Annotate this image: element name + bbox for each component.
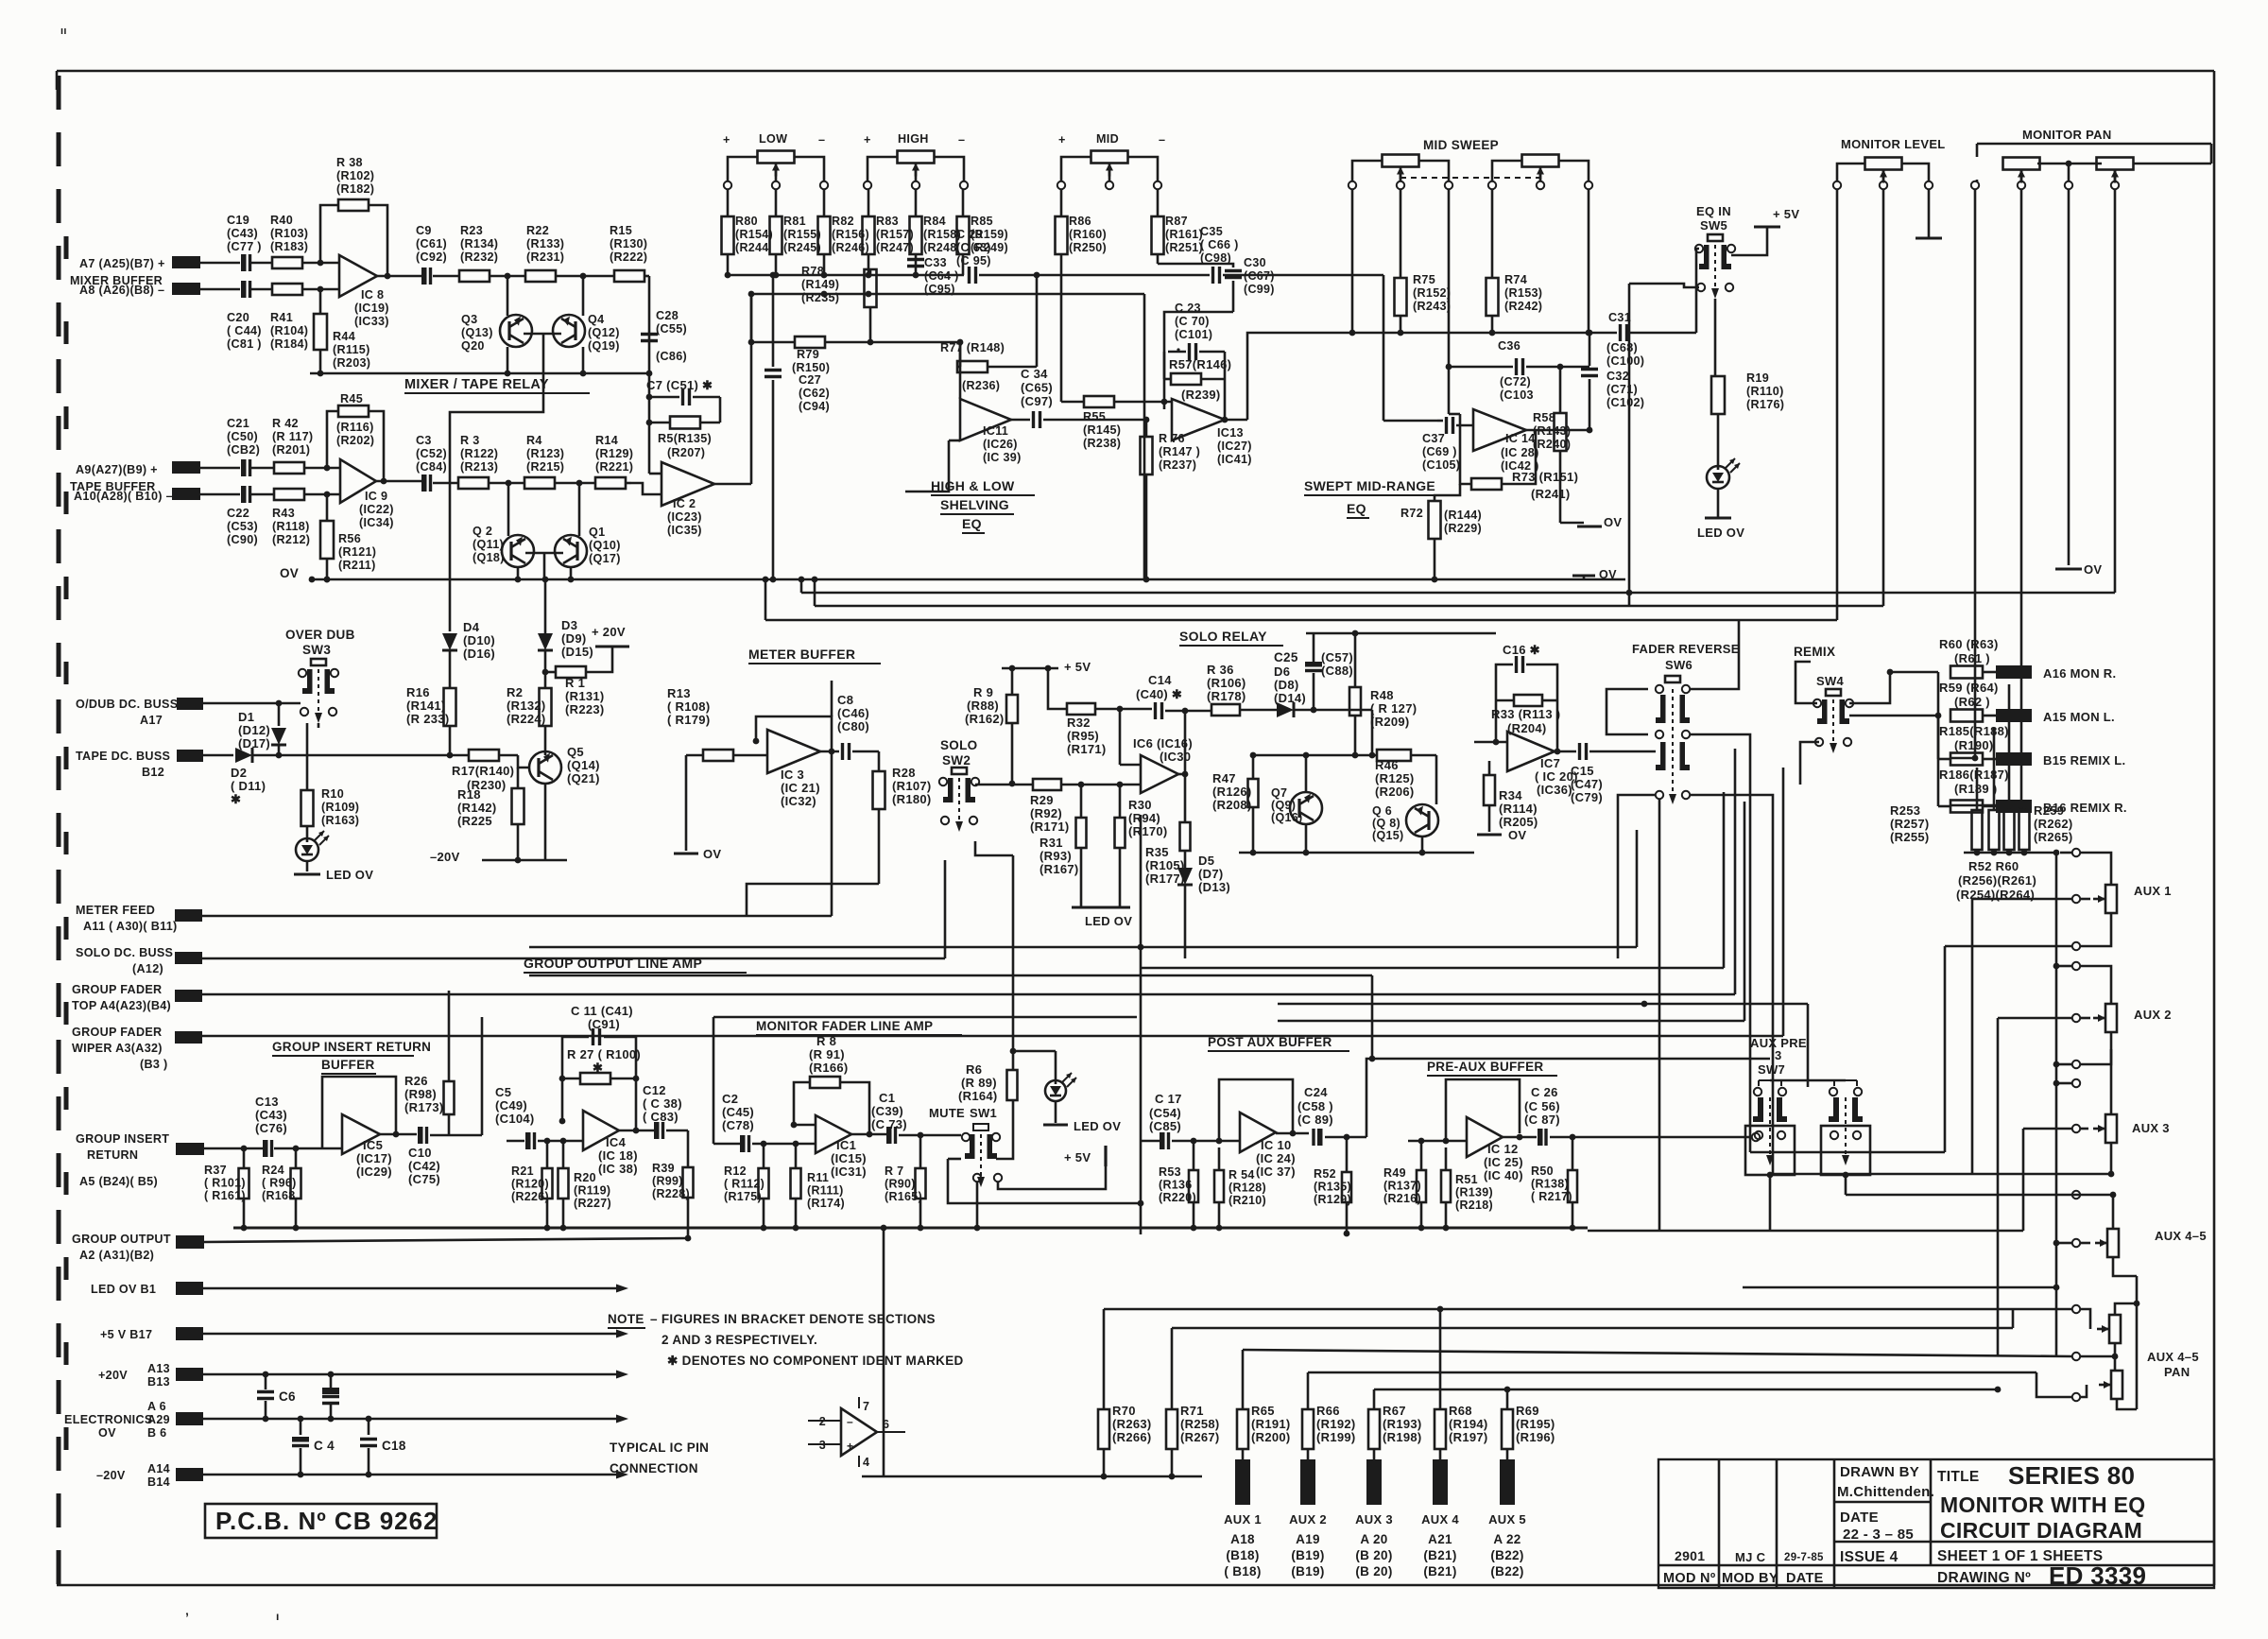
resistor R84 — [910, 189, 962, 275]
svg-text:Q 6: Q 6 — [1372, 804, 1392, 818]
svg-text:R69: R69 — [1516, 1404, 1539, 1418]
svg-text:(R191): (R191) — [1251, 1417, 1291, 1431]
svg-text:B12: B12 — [142, 766, 164, 779]
svg-text:R 42: R 42 — [272, 417, 299, 430]
wire — [2113, 1257, 2139, 1409]
resistor R24 — [262, 1148, 301, 1231]
svg-text:OV: OV — [1604, 515, 1622, 529]
svg-text:(C99): (C99) — [1244, 283, 1275, 296]
svg-text:(R178): (R178) — [1207, 689, 1246, 703]
svg-text:(B22): (B22) — [1490, 1564, 1523, 1579]
svg-text:+5 V B17: +5 V B17 — [100, 1328, 152, 1341]
LED D-EQ — [1707, 458, 1740, 489]
svg-text:(R197): (R197) — [1449, 1430, 1488, 1444]
svg-text:SWEPT MID-RANGE: SWEPT MID-RANGE — [1304, 478, 1435, 493]
svg-text:(R123): (R123) — [526, 447, 564, 460]
transistor Q2 — [472, 483, 534, 582]
resistor R33 — [1491, 695, 1560, 735]
capacitor C30 — [1164, 256, 1275, 352]
svg-text:R 27 ( R100): R 27 ( R100) — [567, 1047, 641, 1061]
svg-text:(R255): (R255) — [1890, 830, 1930, 844]
svg-text:(R135): (R135) — [1314, 1181, 1351, 1194]
svg-text:R50: R50 — [1531, 1165, 1554, 1178]
svg-text:R56: R56 — [338, 532, 361, 545]
wire — [1216, 1079, 1297, 1144]
wire — [1307, 1372, 1310, 1409]
svg-text:D2: D2 — [231, 766, 247, 780]
svg-text:(R137): (R137) — [1383, 1180, 1421, 1193]
node TAPE BUFFER — [70, 480, 156, 493]
svg-text:C9: C9 — [416, 224, 432, 237]
svg-text:Q5: Q5 — [567, 745, 584, 759]
node A16 conn — [1996, 665, 2116, 681]
wire — [713, 1016, 1137, 1019]
svg-text:(B21): (B21) — [1423, 1564, 1456, 1579]
svg-text:(R193): (R193) — [1383, 1417, 1422, 1431]
resistor R87 — [1152, 189, 1204, 264]
svg-text:R71: R71 — [1180, 1404, 1204, 1418]
svg-text:(R225: (R225 — [457, 814, 492, 828]
svg-text:C10: C10 — [408, 1146, 432, 1160]
node stray — [60, 26, 1180, 1625]
node AUX5 conn — [1488, 1449, 1526, 1579]
wire — [945, 1134, 961, 1137]
svg-text:( D11): ( D11) — [231, 779, 266, 793]
resistor R53 — [1159, 1141, 1198, 1231]
transistor Q3 — [461, 276, 532, 376]
svg-text:BUFFER: BUFFER — [321, 1058, 375, 1072]
svg-text:(Q14): (Q14) — [567, 758, 600, 772]
svg-text:(C76): (C76) — [255, 1121, 287, 1135]
svg-text:METER FEED: METER FEED — [76, 904, 155, 917]
svg-text:(R167): (R167) — [1039, 862, 1079, 876]
svg-text:(R107): (R107) — [892, 779, 932, 793]
svg-text:(R131): (R131) — [565, 689, 605, 703]
svg-text:(R207): (R207) — [667, 446, 705, 459]
svg-text:P.C.B. Nº CB 9262: P.C.B. Nº CB 9262 — [215, 1507, 438, 1535]
op-amp IC11 — [960, 399, 1030, 464]
svg-text:(C43): (C43) — [227, 227, 258, 240]
svg-text:R11: R11 — [807, 1171, 829, 1184]
svg-text:C18: C18 — [382, 1439, 406, 1453]
svg-text:SOLO DC. BUSS: SOLO DC. BUSS — [76, 946, 173, 959]
resistor R17 — [452, 750, 518, 792]
wire — [1572, 1227, 1588, 1230]
svg-text:ELECTRONICS: ELECTRONICS — [64, 1413, 153, 1426]
resistor R70 — [1098, 1404, 1152, 1449]
svg-text:ED 3339: ED 3339 — [2049, 1561, 2146, 1590]
svg-text:AUX 2: AUX 2 — [1289, 1512, 1327, 1527]
wire — [2117, 1399, 2137, 1409]
wire — [959, 342, 962, 399]
svg-text:(R165): (R165) — [885, 1190, 922, 1203]
svg-text:(A12): (A12) — [132, 962, 163, 975]
svg-text:(D9): (D9) — [561, 631, 586, 646]
svg-text:LED OV: LED OV — [1085, 914, 1132, 928]
node B15 conn — [1996, 752, 2125, 768]
op-amp IC1 — [816, 1115, 867, 1179]
resistor R79 — [753, 336, 960, 374]
resistor R23 — [459, 224, 525, 282]
resistor R185 — [1938, 672, 2009, 766]
svg-text:(R166): (R166) — [809, 1061, 849, 1075]
svg-text:+: + — [847, 1440, 853, 1453]
diode D4 — [442, 620, 495, 688]
svg-text:C7 (C51) ✱: C7 (C51) ✱ — [646, 378, 713, 392]
svg-text:IC 12: IC 12 — [1487, 1142, 1519, 1156]
svg-text:SW4: SW4 — [1816, 674, 1845, 688]
svg-text:(R248: (R248 — [923, 241, 957, 254]
svg-text:(IC17): (IC17) — [356, 1151, 392, 1165]
svg-text:EQ IN: EQ IN — [1696, 204, 1731, 218]
node POST AUX BUFFER — [1208, 1035, 1349, 1051]
resistor R58 — [1533, 367, 1571, 523]
wire — [1247, 333, 1342, 420]
wire — [1717, 489, 1720, 518]
svg-text:Q1: Q1 — [589, 526, 605, 539]
svg-text:R81: R81 — [783, 215, 806, 228]
resistor R76 — [1141, 420, 1201, 582]
svg-text:C1: C1 — [879, 1091, 895, 1105]
svg-text:A 20: A 20 — [1360, 1532, 1387, 1546]
svg-text:(IC 25): (IC 25) — [1484, 1155, 1523, 1169]
resistor R51 — [1441, 1147, 1493, 1231]
svg-text:(IC23): (IC23) — [667, 510, 702, 524]
wire — [202, 751, 832, 916]
svg-text:Q4: Q4 — [588, 313, 604, 326]
node OV — [674, 847, 721, 861]
node title texts — [1663, 1461, 2146, 1590]
wire — [765, 619, 1837, 622]
svg-text:OV: OV — [1599, 568, 1617, 581]
diode D1 — [238, 710, 286, 755]
svg-text:OV: OV — [280, 566, 299, 580]
capacitor C14 — [1136, 673, 1212, 719]
svg-text:( R101): ( R101) — [204, 1177, 246, 1190]
svg-text:(R201): (R201) — [272, 443, 310, 457]
svg-text:TAPE DC. BUSS: TAPE DC. BUSS — [76, 750, 170, 763]
svg-text:(R196): (R196) — [1516, 1430, 1555, 1444]
svg-text:+20V: +20V — [98, 1369, 128, 1382]
svg-text:(B3 ): (B3 ) — [140, 1058, 168, 1071]
resistor R16 — [406, 685, 456, 758]
svg-text:A19: A19 — [1296, 1532, 1320, 1546]
svg-text:22 - 3 – 85: 22 - 3 – 85 — [1843, 1527, 1914, 1543]
potentiometer MONITOR LEVEL — [1833, 158, 1933, 190]
wire — [974, 1182, 981, 1231]
svg-text:(C50): (C50) — [227, 430, 258, 443]
svg-text:4: 4 — [863, 1456, 869, 1469]
switch SW7b — [1821, 1080, 1870, 1178]
svg-text:(R194): (R194) — [1449, 1417, 1488, 1431]
svg-text:(IC 39): (IC 39) — [983, 451, 1022, 464]
svg-text:(C62): (C62) — [799, 387, 830, 400]
svg-text:(Q13): (Q13) — [461, 326, 493, 339]
wire — [751, 291, 1144, 298]
svg-text:(R265): (R265) — [2034, 830, 2073, 844]
wire — [1374, 1387, 2001, 1393]
svg-text:R65: R65 — [1251, 1404, 1275, 1418]
svg-text:AUX 4–5: AUX 4–5 — [2155, 1229, 2207, 1243]
wire — [998, 1166, 1106, 1189]
potentiometer AUX4-5 PAN B — [2099, 1343, 2199, 1399]
svg-text:C37: C37 — [1422, 432, 1445, 445]
wire — [2022, 1129, 2025, 1231]
op-amp IC14 — [1473, 409, 1539, 473]
wire — [2053, 1239, 2090, 1247]
wire — [1439, 1309, 1442, 1409]
svg-text:(C71): (C71) — [1606, 383, 1638, 396]
resistor R12 — [724, 1144, 769, 1231]
svg-text:(R95): (R95) — [1067, 729, 1099, 743]
wire — [1526, 427, 1592, 434]
svg-text:R10: R10 — [321, 787, 344, 801]
node pan terminals — [1971, 181, 2119, 189]
svg-text:(IC30: (IC30 — [1160, 750, 1191, 764]
svg-text:LED OV: LED OV — [1697, 526, 1744, 540]
svg-text:R41: R41 — [270, 311, 293, 324]
capacitor C23 — [1168, 302, 1225, 360]
wire — [851, 1133, 886, 1136]
svg-text:C14: C14 — [1148, 673, 1172, 687]
resistor R80 — [722, 189, 774, 275]
svg-text:R185(R188): R185(R188) — [1939, 724, 2009, 738]
svg-text:(R126): (R126) — [1212, 785, 1252, 799]
resistor R78 — [801, 265, 877, 342]
wire — [449, 1017, 482, 1135]
wire — [1172, 1309, 2013, 1328]
wire — [1770, 1079, 1846, 1082]
node GROUP FADER TOP conn — [72, 983, 202, 1012]
svg-text:LED OV: LED OV — [326, 868, 373, 882]
op-amp typical — [808, 1397, 905, 1469]
wire — [1628, 284, 1631, 606]
wire — [1849, 669, 1938, 703]
resistor R69 — [1502, 1404, 1555, 1449]
capacitor C1 — [871, 1091, 945, 1144]
node O/DUB conn — [76, 698, 203, 727]
wire — [1658, 800, 1661, 1231]
svg-text:–: – — [818, 133, 825, 147]
svg-text:R22: R22 — [526, 224, 549, 237]
wire — [1143, 294, 1146, 579]
wire — [57, 1584, 2214, 1587]
svg-text:MONITOR WITH EQ: MONITOR WITH EQ — [1940, 1492, 2145, 1517]
resistor R31 — [1039, 785, 1087, 907]
node +5V — [1002, 660, 1091, 674]
svg-text:(C78): (C78) — [722, 1118, 754, 1132]
svg-text:TITLE: TITLE — [1937, 1469, 1980, 1485]
svg-text:R47: R47 — [1212, 771, 1236, 785]
svg-text:(R211): (R211) — [338, 559, 376, 572]
svg-text:(C45): (C45) — [722, 1105, 754, 1119]
svg-text:(D17): (D17) — [238, 736, 270, 750]
LED overdub — [296, 831, 329, 861]
capacitor C2 — [722, 1092, 816, 1152]
svg-text:RETURN: RETURN — [87, 1148, 138, 1162]
svg-text:IC11: IC11 — [983, 424, 1008, 438]
wire — [450, 334, 543, 631]
node GROUP OUTPUT conn — [72, 1233, 204, 1262]
svg-text:GROUP FADER: GROUP FADER — [72, 983, 162, 996]
svg-text:(R160): (R160) — [1069, 228, 1107, 241]
node OV — [2055, 562, 2102, 577]
svg-text:AUX 5: AUX 5 — [1488, 1512, 1526, 1527]
svg-text:2 AND 3 RESPECTIVELY.: 2 AND 3 RESPECTIVELY. — [661, 1333, 817, 1347]
wire — [750, 294, 753, 342]
switch SW7 — [1745, 1062, 1795, 1178]
svg-text:D3: D3 — [561, 618, 577, 632]
svg-text:(R257): (R257) — [1890, 817, 1930, 831]
capacitor C13 — [255, 1095, 322, 1157]
svg-text:( R108): ( R108) — [667, 699, 710, 714]
capacitor C28 — [641, 309, 687, 363]
resistor R10 — [301, 723, 360, 838]
wire — [747, 884, 879, 916]
svg-text:(R136: (R136 — [1159, 1179, 1193, 1192]
svg-text:3: 3 — [1775, 1048, 1782, 1062]
svg-text:(R158): (R158) — [923, 228, 961, 241]
wire — [1795, 662, 1817, 703]
wire — [619, 1128, 654, 1134]
svg-text:+ 5V: + 5V — [1064, 660, 1091, 674]
svg-text:R 36: R 36 — [1207, 663, 1234, 677]
svg-text:(R195): (R195) — [1516, 1417, 1555, 1431]
svg-text:(B19): (B19) — [1291, 1564, 1324, 1579]
ground — [1916, 237, 1942, 240]
svg-text:R14: R14 — [595, 434, 618, 447]
svg-text:A8 (A26)(B8) –: A8 (A26)(B8) – — [79, 284, 164, 297]
wire — [2023, 1125, 2088, 1132]
svg-text:R82: R82 — [832, 215, 854, 228]
wire — [1222, 352, 1247, 423]
svg-text:PAN: PAN — [2164, 1365, 2190, 1379]
resistor R49 — [1383, 1138, 1446, 1232]
svg-text:D6: D6 — [1274, 664, 1290, 679]
wire — [1104, 1306, 2071, 1313]
resistor R52 — [1314, 1134, 1366, 1237]
wire — [233, 1227, 1588, 1230]
wire — [1635, 750, 1656, 753]
svg-text:(R247): (R247) — [876, 241, 914, 254]
svg-text:–: – — [847, 1415, 853, 1428]
wire — [1690, 795, 1773, 1174]
svg-text:(R116): (R116) — [336, 421, 374, 434]
svg-text:AUX 1: AUX 1 — [1224, 1512, 1262, 1527]
svg-text:(R147 ): (R147 ) — [1159, 445, 1200, 458]
node LED OV — [1072, 907, 1132, 928]
resistor R59 — [1939, 681, 1999, 722]
node GROUP OUTPUT LINE AMP — [524, 956, 747, 973]
svg-text:(R142): (R142) — [457, 801, 497, 815]
resistor R86 — [1056, 189, 1108, 402]
svg-text:(C101): (C101) — [1175, 328, 1212, 341]
svg-text:DRAWING Nº: DRAWING Nº — [1937, 1570, 2031, 1586]
svg-text:(IC29): (IC29) — [356, 1165, 392, 1179]
svg-text:(C77 ): (C77 ) — [227, 240, 262, 253]
svg-text:R33 (R113 ): R33 (R113 ) — [1491, 707, 1560, 721]
svg-text:(IC 37): (IC 37) — [1256, 1165, 1296, 1179]
svg-text:R73 (R151): R73 (R151) — [1512, 470, 1578, 484]
node +20V — [592, 625, 629, 649]
node A10 — [74, 488, 240, 503]
svg-text:B14: B14 — [147, 1475, 170, 1489]
capacitor C33 — [907, 256, 959, 296]
node MID SWEEP — [1423, 138, 1499, 152]
resistor R46 — [1253, 750, 1436, 799]
svg-text:+ 5V: + 5V — [1773, 207, 1799, 221]
svg-text:(Q11): (Q11) — [472, 538, 504, 551]
svg-text:(R256)(R261): (R256)(R261) — [1958, 873, 2036, 888]
resistor R7 — [885, 1135, 926, 1231]
resistor R19 — [1711, 299, 1784, 465]
svg-text:(C52): (C52) — [416, 447, 447, 460]
resistor R26 — [404, 991, 455, 1114]
resistor R4 — [524, 434, 595, 489]
node NOTE — [608, 1312, 964, 1368]
capacitor C29 — [956, 228, 1210, 284]
svg-text:(R118): (R118) — [272, 520, 310, 533]
svg-text:C25: C25 — [1274, 650, 1298, 664]
wire — [1158, 264, 1233, 267]
node MIXER BUFFER — [70, 274, 163, 287]
svg-text:(B 20): (B 20) — [1355, 1548, 1392, 1562]
svg-text:(R 233): (R 233) — [406, 712, 449, 726]
svg-text:A 22: A 22 — [1493, 1532, 1521, 1546]
resistor R47 — [1212, 752, 1259, 853]
svg-text:Q20: Q20 — [461, 339, 485, 353]
svg-text:A17: A17 — [140, 714, 163, 727]
wire — [1845, 1175, 1847, 1195]
wire — [56, 71, 59, 90]
op-amp IC4 — [583, 1111, 638, 1176]
svg-text:(R240): (R240) — [1533, 438, 1571, 451]
wire — [2053, 1032, 2111, 1068]
svg-text:C22: C22 — [227, 507, 249, 520]
svg-text:(R190): (R190) — [1954, 738, 1994, 752]
wire — [1366, 1059, 1770, 1137]
wire — [1696, 249, 1699, 333]
wire — [1945, 913, 2111, 1152]
svg-text:C35: C35 — [1200, 225, 1223, 238]
svg-text:DRAWN BY: DRAWN BY — [1840, 1464, 1919, 1480]
wire — [203, 754, 233, 757]
resistor R6 — [958, 1048, 1018, 1159]
svg-text:(C53): (C53) — [227, 520, 258, 533]
svg-text:( R96): ( R96) — [262, 1177, 297, 1190]
resistor R32 — [1048, 668, 1152, 756]
svg-text:(Q19): (Q19) — [588, 339, 620, 353]
svg-text:(R231): (R231) — [526, 250, 564, 264]
svg-text:(C 95): (C 95) — [956, 254, 991, 267]
svg-text:(C81 ): (C81 ) — [227, 337, 262, 351]
potentiometer AUX4-5 — [2095, 1192, 2207, 1257]
capacitor C18 — [360, 1419, 406, 1477]
svg-text:SW7: SW7 — [1758, 1062, 1785, 1077]
svg-text:(R250): (R250) — [1069, 241, 1107, 254]
svg-text:(C84): (C84) — [416, 460, 447, 474]
wire — [1974, 189, 1977, 758]
svg-text:R77 (R148): R77 (R148) — [940, 341, 1005, 354]
resistor R57 — [1164, 352, 1231, 402]
node MONITOR FADER LINE AMP — [756, 1019, 962, 1035]
capacitor C17 — [1149, 1092, 1240, 1149]
svg-text:(R215): (R215) — [526, 460, 564, 474]
resistor R67 — [1368, 1404, 1422, 1449]
svg-text:C 23: C 23 — [1175, 302, 1201, 315]
node B16 conn — [1996, 800, 2127, 815]
op-amp IC3 — [767, 730, 820, 808]
